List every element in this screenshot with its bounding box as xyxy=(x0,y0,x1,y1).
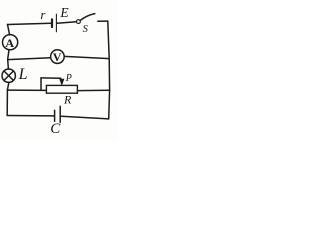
wire right vertical xyxy=(108,21,110,119)
svg-text:L: L xyxy=(18,66,28,83)
wire R box to right vertical xyxy=(77,89,109,91)
wire left vertical lower xyxy=(6,90,8,115)
svg-text:V: V xyxy=(53,50,62,64)
rheostat R box xyxy=(46,85,77,93)
wire junction to lamp xyxy=(7,60,10,70)
wire R-branch horizontal left xyxy=(7,89,46,91)
wire V to right vertical xyxy=(64,56,109,58)
svg-text:E: E xyxy=(59,5,69,20)
wire A to V-branch junction xyxy=(8,50,9,59)
wire battery to switch xyxy=(57,22,76,23)
wire switch to top-right corner xyxy=(98,20,108,22)
battery cell short plate (negative) xyxy=(51,19,53,27)
voltmeter V circle xyxy=(51,50,65,64)
svg-text:P: P xyxy=(65,73,72,84)
wire V-branch horizontal left xyxy=(8,58,51,60)
svg-text:A: A xyxy=(5,36,14,50)
wire left vertical upper xyxy=(8,25,10,35)
switch S lever xyxy=(80,14,95,21)
wire top-left horizontal xyxy=(8,23,51,24)
lamp L circle xyxy=(2,69,15,82)
slider arrow P xyxy=(60,79,64,85)
lamp L cross xyxy=(4,71,13,80)
wire lamp to R-branch junction xyxy=(7,82,8,89)
svg-text:C: C xyxy=(50,121,61,137)
wire bottom right horizontal xyxy=(61,116,108,119)
slider horizontal wire xyxy=(41,77,61,79)
svg-text:R: R xyxy=(63,93,72,107)
capacitor C left plate xyxy=(54,110,56,121)
svg-text:S: S xyxy=(83,24,89,35)
battery cell long plate (positive) xyxy=(55,14,57,32)
capacitor C right plate xyxy=(59,106,61,122)
slider riser wire xyxy=(40,78,42,90)
ammeter A circle xyxy=(3,35,18,50)
svg-text:r: r xyxy=(40,7,46,22)
switch S pivot xyxy=(77,20,81,24)
wire bottom left horizontal xyxy=(7,115,54,117)
